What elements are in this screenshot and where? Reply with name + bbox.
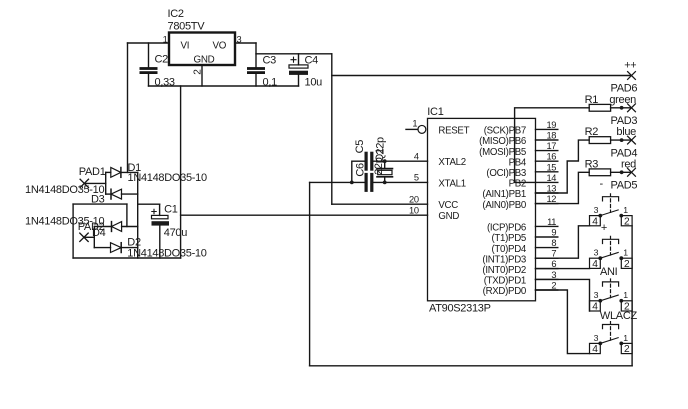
wire: PAD1 vertical D1-D3	[105, 172, 107, 194]
svg-text:7: 7	[551, 249, 556, 259]
svg-text:16: 16	[546, 152, 556, 162]
svg-text:PAD5: PAD5	[611, 180, 638, 192]
wire: VCC branch from C3 node	[256, 53, 332, 55]
wire: VCC net vertical	[331, 54, 333, 204]
wire: R1 net from PB2	[515, 108, 590, 183]
wire: R1 to PAD3	[611, 107, 632, 109]
crystal Q1	[384, 161, 386, 168]
svg-text:11: 11	[547, 217, 556, 227]
IC1 pin 7 (INT1)PD3	[536, 257, 558, 259]
svg-text:5: 5	[414, 173, 419, 183]
wire: XTAL2 row	[373, 160, 427, 162]
IC1 pin 9 (T1)PD5	[536, 236, 558, 238]
junction dots crystal	[383, 159, 387, 163]
svg-text:4: 4	[414, 151, 419, 161]
diode D3	[106, 193, 111, 195]
capacitor C1 (polarized electrolytic)	[138, 203, 160, 205]
switch S1	[603, 194, 619, 201]
svg-text:3: 3	[551, 270, 556, 280]
svg-text:R3: R3	[585, 158, 599, 170]
svg-text:(SCK)PB7: (SCK)PB7	[484, 126, 526, 137]
svg-text:(T0)PD4: (T0)PD4	[491, 244, 526, 255]
svg-text:R2: R2	[585, 126, 599, 138]
svg-text:-: -	[600, 178, 604, 190]
diode D4	[94, 226, 111, 228]
svg-text:green: green	[609, 94, 636, 106]
IC1 pin 8 (T0)PD4	[536, 247, 558, 249]
IC1 pin 1 RESET with bubble	[406, 128, 418, 130]
svg-text:C1: C1	[164, 204, 178, 216]
wire: R2 to PAD4	[611, 139, 632, 141]
svg-text:C5: C5	[354, 140, 366, 154]
switch S2	[603, 236, 619, 243]
svg-text:RESET: RESET	[438, 125, 469, 136]
svg-text:(AIN0)PB0: (AIN0)PB0	[482, 200, 527, 211]
node PAD4	[628, 136, 636, 144]
svg-text:VCC: VCC	[438, 200, 458, 211]
wire: bottom rail	[310, 365, 632, 367]
microcontroller IC1 AT90S2313P	[428, 118, 536, 300]
svg-text:20: 20	[409, 194, 419, 204]
IC1 pin 2 (RXD)PD0	[536, 289, 558, 291]
wire: IC2 pin 3 to C3	[235, 42, 256, 44]
svg-text:470u: 470u	[164, 227, 187, 239]
svg-text:4: 4	[592, 302, 598, 313]
svg-text:VO: VO	[213, 40, 227, 51]
wire: S1 to IC1 pin 7	[536, 226, 590, 258]
wire: S3 to IC1 pin 3	[536, 279, 590, 311]
capacitor C6	[365, 173, 368, 192]
diode D2	[94, 247, 110, 249]
svg-text:C2: C2	[155, 54, 169, 66]
svg-text:14: 14	[546, 173, 556, 183]
wire: VCC to IC1 pin 20	[332, 203, 428, 205]
svg-text:6: 6	[551, 259, 556, 269]
svg-text:PB4: PB4	[509, 157, 527, 168]
svg-text:+: +	[601, 222, 607, 234]
wire: PAD2 to bridge	[84, 236, 94, 238]
wire: diode output column	[137, 172, 139, 258]
svg-text:8: 8	[551, 238, 556, 248]
svg-text:(MISO)PB6: (MISO)PB6	[479, 136, 526, 147]
capacitor C4 (polarized)	[298, 54, 300, 65]
svg-text:GND: GND	[194, 54, 215, 65]
svg-text:3: 3	[594, 248, 599, 258]
svg-text:2: 2	[624, 344, 630, 355]
svg-text:VI: VI	[181, 40, 190, 51]
svg-text:18: 18	[546, 131, 556, 141]
svg-text:(INT0)PD2: (INT0)PD2	[482, 265, 526, 276]
svg-text:(T1)PD5: (T1)PD5	[491, 233, 526, 244]
svg-text:IC2: IC2	[168, 8, 184, 20]
svg-text:13: 13	[546, 184, 556, 194]
svg-text:17: 17	[546, 141, 556, 151]
node PAD6	[628, 72, 636, 80]
svg-text:3: 3	[594, 333, 599, 343]
node PAD3	[628, 104, 636, 112]
svg-text:1: 1	[623, 290, 628, 300]
wire: bottom rail of bridge	[73, 257, 181, 259]
svg-text:XTAL2: XTAL2	[438, 157, 465, 168]
diode D1	[106, 171, 111, 173]
wire: riser to D4 lead	[126, 204, 128, 226]
svg-text:15: 15	[546, 162, 556, 172]
IC1 pin 12 (AIN0)PB0	[536, 203, 558, 205]
wire: cap-gnd riser to bottom rail	[309, 182, 311, 365]
svg-text:3: 3	[594, 290, 599, 300]
wire: GND line to IC1 pin 10	[181, 214, 428, 216]
svg-text:19: 19	[546, 120, 556, 130]
capacitor C3	[255, 43, 257, 67]
svg-text:3: 3	[594, 205, 599, 215]
wire: C5 left to cap-gnd	[352, 161, 365, 182]
svg-text:1: 1	[623, 248, 628, 258]
wire: IC2 pin 2 GND stem	[201, 65, 203, 86]
svg-text:red: red	[621, 158, 636, 170]
svg-text:2: 2	[624, 259, 630, 270]
svg-text:(AIN1)PB1: (AIN1)PB1	[482, 189, 526, 200]
svg-text:C4: C4	[305, 54, 319, 66]
svg-text:++: ++	[624, 59, 636, 71]
svg-text:ANI: ANI	[600, 266, 618, 278]
wire: PAD2 vertical D4-D2	[93, 227, 95, 248]
resistor R2	[589, 137, 610, 144]
svg-text:XTAL1: XTAL1	[438, 179, 465, 190]
svg-text:22p: 22p	[373, 157, 385, 175]
switch S3	[603, 279, 619, 286]
svg-text:1: 1	[623, 205, 628, 215]
IC1 pin 6 (INT0)PD2	[536, 268, 558, 270]
wire: left rect horizontal y=204	[73, 203, 127, 205]
svg-text:(INT1)PD3: (INT1)PD3	[482, 254, 526, 265]
svg-text:R1: R1	[585, 94, 599, 106]
svg-text:blue: blue	[616, 126, 636, 138]
wire: IC2 pin 1 to C2/D1 riser	[128, 42, 170, 44]
svg-text:IC1: IC1	[427, 106, 443, 118]
capacitor C5	[365, 152, 368, 171]
capacitor C2	[148, 43, 150, 67]
wire: S2 to IC1 pin 6	[536, 268, 590, 270]
svg-text:4: 4	[592, 216, 598, 227]
svg-text:1: 1	[412, 119, 417, 129]
svg-text:C3: C3	[263, 54, 277, 66]
svg-text:PAD6: PAD6	[611, 83, 638, 95]
IC1 pin 18 (MISO)PB6	[536, 139, 558, 141]
IC1 pin 13 (AIN1)PB1	[536, 192, 558, 194]
svg-text:1: 1	[623, 333, 628, 343]
svg-text:AT90S2313P: AT90S2313P	[429, 303, 491, 315]
svg-text:2: 2	[551, 281, 556, 291]
svg-text:2: 2	[624, 216, 630, 227]
wire: PAD1 to bridge	[84, 182, 105, 184]
svg-text:PAD1: PAD1	[79, 166, 106, 178]
resistor R3	[589, 169, 610, 176]
wire: R3 to PAD5	[611, 171, 632, 173]
wire: S4 to IC1 pin 2	[536, 290, 590, 354]
wire: switch common right vertical	[631, 226, 633, 366]
IC1 pin 15 (OCI)PB3	[536, 171, 558, 173]
svg-text:GND: GND	[438, 211, 459, 222]
wire: left rect vertical	[72, 204, 74, 258]
svg-text:1N4148DO35-10: 1N4148DO35-10	[128, 172, 207, 184]
svg-text:9: 9	[551, 228, 556, 238]
svg-text:C6: C6	[355, 163, 367, 177]
IC1 pin 14 PB2	[536, 181, 558, 183]
svg-text:(OCI)PB3: (OCI)PB3	[486, 168, 526, 179]
svg-text:10u: 10u	[305, 77, 323, 89]
resistor R1	[589, 104, 610, 111]
IC1 pin 19 (SCK)PB7	[536, 128, 558, 130]
wire: ground drop x=180.6	[180, 86, 182, 258]
voltage regulator IC2 7805TV	[169, 33, 235, 66]
IC1 pin 17 (MOSI)PB5	[536, 150, 558, 152]
wire: ++ supply line to PAD6	[332, 75, 632, 77]
switch S4	[603, 322, 619, 329]
C4 plus sign	[291, 57, 296, 62]
wire: R2 net from PB1	[536, 140, 590, 193]
svg-text:4: 4	[592, 259, 598, 270]
svg-text:1N4148DO35-10: 1N4148DO35-10	[127, 248, 206, 260]
wire: XTAL1 row	[373, 181, 427, 183]
svg-text:12: 12	[546, 194, 556, 204]
svg-text:10: 10	[409, 205, 419, 215]
wire: ground rail under regulator	[149, 85, 299, 87]
wire: R3 net from PB0	[536, 172, 590, 203]
svg-text:7805TV: 7805TV	[168, 21, 206, 33]
C1 plus sign	[152, 209, 156, 213]
IC1 pin 3 (TXD)PD1	[536, 278, 558, 280]
svg-text:4: 4	[592, 344, 598, 355]
wire: riser regulator input to D1	[127, 43, 129, 172]
node PAD5	[628, 168, 636, 176]
IC1 pin 11 (ICP)PD6	[536, 225, 558, 227]
svg-text:(MOSI)PB5: (MOSI)PB5	[479, 147, 526, 158]
svg-text:(ICP)PD6: (ICP)PD6	[487, 223, 526, 234]
svg-text:(TXD)PD1: (TXD)PD1	[484, 276, 526, 287]
svg-text:PB2: PB2	[509, 179, 526, 190]
IC1 pin 16 PB4	[536, 160, 558, 162]
wire: cap-gnd row to C6	[310, 181, 365, 183]
svg-text:(RXD)PD0: (RXD)PD0	[483, 286, 527, 297]
